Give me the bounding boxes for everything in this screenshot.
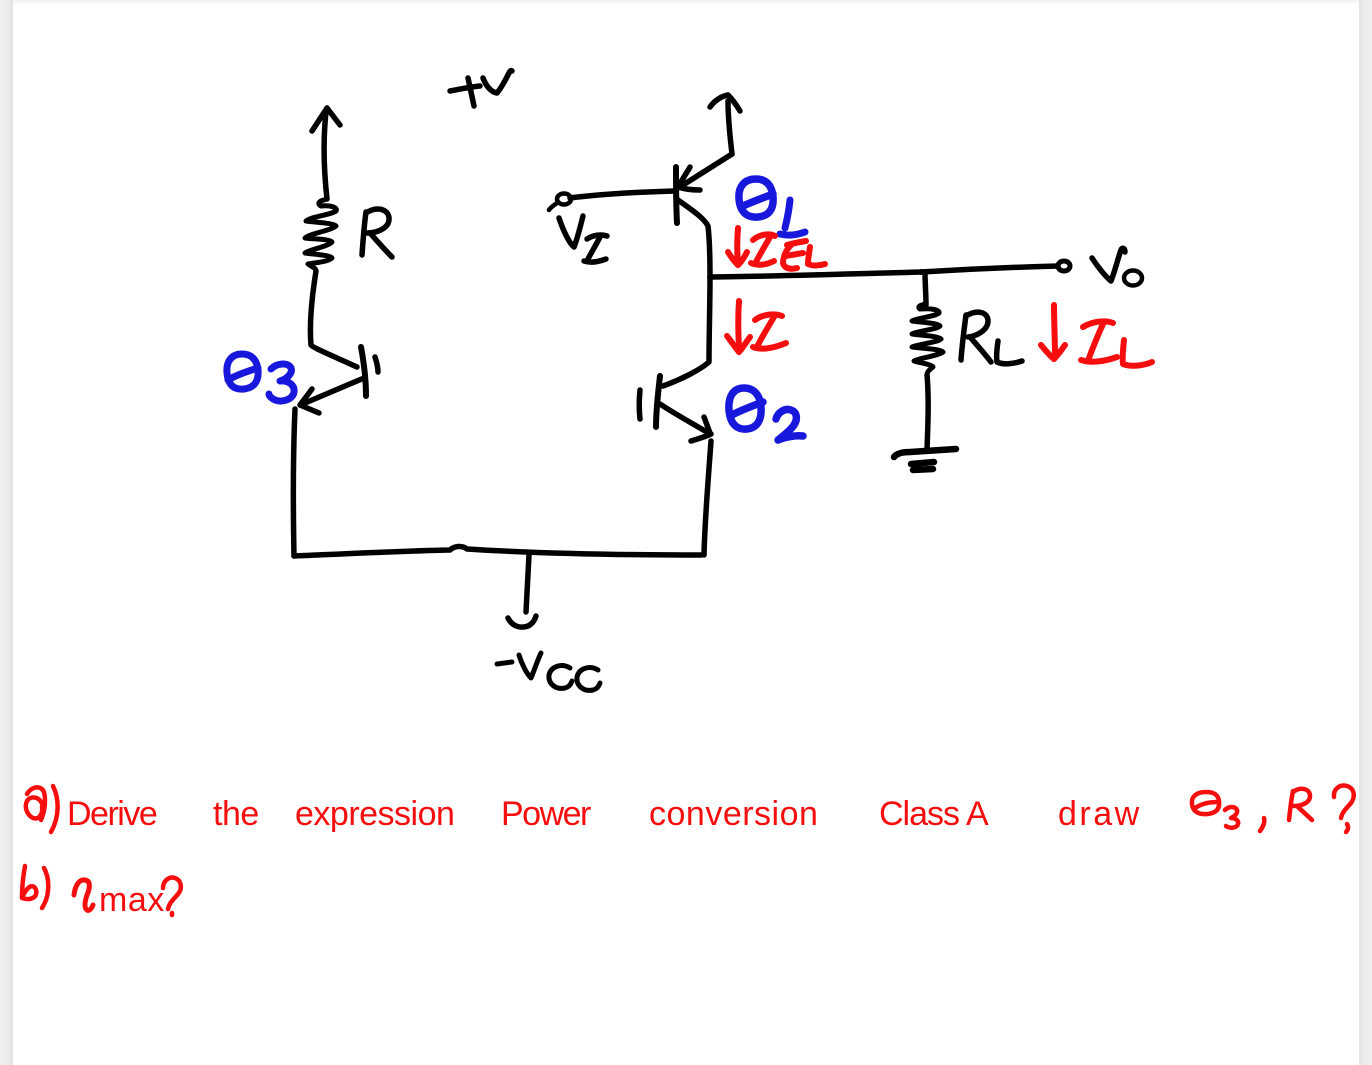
svg-text:Class: Class xyxy=(879,795,959,833)
transistor Q1 emitter arrow (points into bar) xyxy=(678,154,732,190)
label Q1 (theta1, blue) xyxy=(739,179,805,235)
red note line b: "b)" xyxy=(22,866,48,908)
comma xyxy=(1260,818,1264,831)
wire: output node to Vo terminal xyxy=(710,266,1058,277)
wire: output node to RL xyxy=(918,269,924,275)
svg-text:draw: draw xyxy=(1058,795,1142,833)
svg-text:Power: Power xyxy=(501,795,591,833)
red note line a: words xyxy=(67,795,1142,833)
label eta (red) xyxy=(74,880,93,911)
wire: RL to ground xyxy=(927,375,928,450)
wire: Q2 emitter down to rail xyxy=(704,441,711,555)
label I_L current arrow (red) xyxy=(1041,305,1152,366)
question mark xyxy=(1334,786,1354,832)
svg-text:the: the xyxy=(213,795,259,833)
svg-text:A: A xyxy=(966,795,989,833)
svg-text:expression: expression xyxy=(295,795,454,833)
question mark b xyxy=(163,878,181,915)
transistor Q2 base stub xyxy=(637,390,643,419)
wire: Q1 collector node down to Q2 xyxy=(663,277,710,386)
node Vi input terminal xyxy=(549,194,571,211)
wire: Q1 emitter to +V arrow xyxy=(710,95,740,154)
resistor R xyxy=(305,200,336,271)
svg-text:max: max xyxy=(99,881,165,919)
label I current arrow (red) xyxy=(727,301,786,352)
label I_EL current arrow (red) xyxy=(728,228,825,269)
ground xyxy=(894,449,956,470)
right page border xyxy=(1359,0,1372,1065)
label Q3 (theta3, blue) xyxy=(227,354,294,401)
svg-text:Derive: Derive xyxy=(67,795,157,833)
wire: Vi terminal to Q1 base xyxy=(570,191,674,198)
wire: Q1 collector down to output node xyxy=(678,200,710,277)
node: output junction of Q1/Q2 xyxy=(707,274,713,280)
label +V xyxy=(450,71,512,106)
svg-text:conversion: conversion xyxy=(649,795,818,833)
label Vo xyxy=(1092,248,1142,285)
red note line a: "a)" xyxy=(26,786,58,832)
wire: Q3 collector down to rail xyxy=(293,409,295,556)
transistor Q1 base bar xyxy=(676,167,677,223)
letter R xyxy=(1289,789,1312,820)
transistor Q2 emitter arrow xyxy=(660,404,711,441)
transistor Q3 emitter arrow xyxy=(300,378,364,413)
label theta3 in note (red) xyxy=(1192,792,1238,828)
label Q2 (theta2, blue) xyxy=(729,388,803,440)
wire: -Vcc stub with hook xyxy=(508,555,536,627)
wire: R to Q3 base xyxy=(310,271,357,367)
transistor Q3 base bar xyxy=(361,347,366,396)
label RL xyxy=(961,312,1022,364)
label V_I xyxy=(559,216,607,262)
node Vo terminal xyxy=(1058,261,1070,271)
transistor Q3 tick xyxy=(375,357,378,372)
top page edge shading xyxy=(13,0,1359,5)
left page border xyxy=(0,0,13,1065)
label R xyxy=(362,209,392,257)
wire: +V supply arrow (left branch) xyxy=(312,108,340,199)
wire: bottom rail xyxy=(294,546,701,556)
transistor Q2 base bar xyxy=(656,376,660,427)
label -Vcc xyxy=(497,653,600,690)
resistor RL xyxy=(912,304,943,375)
